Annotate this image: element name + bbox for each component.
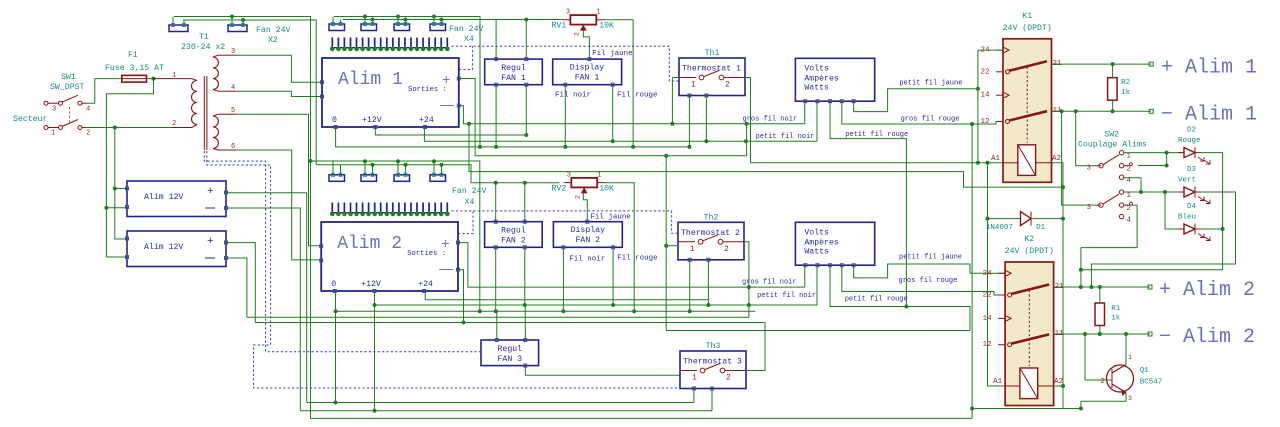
svg-text:FAN 2: FAN 2	[576, 236, 601, 245]
svg-text:D4: D4	[1187, 203, 1197, 211]
svg-text:2: 2	[86, 130, 90, 138]
svg-text:24V (DPDT): 24V (DPDT)	[1005, 246, 1054, 256]
svg-text:+ Alim 1: + Alim 1	[1161, 57, 1257, 80]
svg-text:A1: A1	[993, 378, 1003, 386]
svg-text:Volts: Volts	[804, 63, 829, 73]
svg-text:2: 2	[724, 245, 729, 254]
svg-text:2: 2	[1127, 205, 1132, 213]
svg-text:Thermostat 2: Thermostat 2	[681, 228, 740, 238]
svg-text:Sorties :: Sorties :	[408, 86, 447, 94]
svg-text:1k: 1k	[1111, 315, 1121, 323]
svg-text:RV2: RV2	[552, 184, 567, 193]
svg-text:3: 3	[1128, 395, 1132, 402]
svg-text:Couplage Alims: Couplage Alims	[1078, 140, 1147, 150]
svg-text:+: +	[207, 186, 214, 198]
svg-text:FAN 3: FAN 3	[498, 355, 523, 364]
svg-text:petit fil noir: petit fil noir	[757, 292, 816, 300]
svg-text:gros fil rouge: gros fil rouge	[899, 277, 958, 285]
svg-text:Fil rouge: Fil rouge	[617, 92, 658, 100]
svg-text:10K: 10K	[599, 184, 614, 193]
svg-text:Q1: Q1	[1140, 367, 1150, 375]
svg-text:Display: Display	[571, 225, 605, 235]
svg-text:Watts: Watts	[804, 247, 829, 256]
svg-text:T1: T1	[199, 33, 209, 42]
svg-text:K2: K2	[1024, 235, 1034, 244]
svg-text:2: 2	[1101, 378, 1106, 386]
svg-text:4: 4	[1127, 177, 1132, 185]
svg-text:gros fil noir: gros fil noir	[743, 116, 798, 124]
svg-text:petit fil noir: petit fil noir	[756, 133, 815, 141]
svg-text:230-24 x2: 230-24 x2	[181, 43, 225, 52]
svg-text:X4: X4	[465, 198, 475, 207]
svg-text:R1: R1	[1111, 305, 1121, 313]
svg-text:FAN 1: FAN 1	[575, 74, 600, 83]
svg-text:2: 2	[725, 81, 730, 90]
svg-text:1: 1	[172, 72, 176, 80]
svg-text:X4: X4	[464, 35, 474, 44]
svg-text:gros fil noir: gros fil noir	[742, 279, 797, 287]
svg-text:+12V: +12V	[361, 280, 381, 289]
svg-text:Th1: Th1	[705, 48, 720, 58]
svg-text:gros fil rouge: gros fil rouge	[901, 116, 960, 124]
svg-text:Th2: Th2	[704, 212, 719, 222]
svg-text:+: +	[441, 237, 449, 253]
svg-text:2: 2	[575, 195, 582, 199]
svg-text:+: +	[442, 73, 450, 89]
svg-text:Ampères: Ampères	[804, 73, 838, 83]
svg-text:petit fil jaune: petit fil jaune	[899, 80, 962, 88]
svg-text:petit fil rouge: petit fil rouge	[845, 296, 908, 304]
svg-text:4: 4	[86, 106, 90, 114]
svg-text:Thermostat 3: Thermostat 3	[683, 357, 742, 367]
svg-text:1N4007: 1N4007	[986, 224, 1013, 232]
svg-text:A2: A2	[1052, 155, 1061, 163]
svg-text:SW2: SW2	[1104, 131, 1119, 140]
svg-text:1: 1	[51, 130, 55, 138]
svg-text:Ampères: Ampères	[804, 237, 838, 247]
svg-text:1: 1	[692, 374, 697, 383]
svg-text:3: 3	[566, 9, 570, 17]
svg-text:2: 2	[172, 120, 176, 128]
svg-text:Th3: Th3	[706, 341, 721, 351]
svg-text:F1: F1	[128, 51, 138, 60]
svg-text:petit fil jaune: petit fil jaune	[899, 254, 962, 262]
svg-text:Fuse 3,15 AT: Fuse 3,15 AT	[105, 64, 164, 73]
svg-text:Fil noir: Fil noir	[569, 256, 605, 264]
svg-text:+24: +24	[418, 280, 433, 289]
svg-text:SW1: SW1	[61, 73, 76, 82]
svg-text:1: 1	[596, 9, 600, 17]
svg-text:1: 1	[691, 81, 696, 90]
svg-text:Fan 24V: Fan 24V	[452, 187, 486, 196]
svg-text:0: 0	[331, 280, 336, 289]
svg-text:1: 1	[1128, 354, 1132, 361]
svg-text:1: 1	[1127, 192, 1132, 200]
svg-text:Fan 24V: Fan 24V	[449, 25, 483, 34]
svg-text:Fil jaune: Fil jaune	[590, 214, 631, 222]
svg-text:Secteur: Secteur	[13, 115, 47, 124]
svg-text:10K: 10K	[599, 22, 614, 31]
svg-text:Alim 12V: Alim 12V	[144, 242, 183, 252]
svg-text:Fil jaune: Fil jaune	[592, 50, 633, 58]
svg-text:Fan 24V: Fan 24V	[256, 26, 290, 35]
svg-text:FAN 1: FAN 1	[501, 74, 526, 83]
svg-text:Display: Display	[570, 63, 604, 73]
svg-text:1: 1	[690, 245, 695, 254]
svg-text:Thermostat 1: Thermostat 1	[682, 64, 741, 74]
svg-text:Regul: Regul	[498, 344, 523, 354]
svg-text:D1: D1	[1036, 224, 1046, 232]
svg-text:+24: +24	[419, 116, 434, 125]
svg-text:RV1: RV1	[552, 22, 567, 31]
svg-text:Fil noir: Fil noir	[555, 92, 591, 100]
svg-text:3: 3	[52, 106, 56, 114]
svg-text:1: 1	[597, 171, 601, 179]
svg-text:Fil rouge: Fil rouge	[617, 255, 658, 263]
svg-text:Watts: Watts	[804, 83, 829, 92]
svg-text:− Alim 1: − Alim 1	[1161, 104, 1257, 127]
svg-text:Rouge: Rouge	[1178, 137, 1201, 145]
svg-text:BC547: BC547	[1140, 379, 1163, 387]
svg-text:12: 12	[980, 118, 989, 126]
svg-text:Alim 1: Alim 1	[338, 70, 403, 90]
svg-text:Bleu: Bleu	[1178, 214, 1196, 222]
svg-text:R2: R2	[1121, 79, 1130, 87]
svg-text:X2: X2	[268, 36, 278, 45]
svg-text:24V (DPDT): 24V (DPDT)	[1003, 23, 1052, 33]
svg-text:1: 1	[1127, 153, 1132, 161]
svg-text:0: 0	[332, 116, 337, 125]
svg-text:+: +	[207, 236, 214, 248]
svg-text:22: 22	[980, 68, 989, 76]
svg-text:1k: 1k	[1121, 89, 1131, 97]
svg-text:2: 2	[1127, 166, 1132, 174]
svg-text:Volts: Volts	[804, 227, 829, 237]
svg-text:petit fil rouge: petit fil rouge	[845, 131, 908, 139]
svg-text:D3: D3	[1187, 166, 1197, 174]
svg-text:Vert: Vert	[1178, 177, 1196, 185]
svg-text:D2: D2	[1187, 127, 1196, 135]
svg-text:Alim 2: Alim 2	[337, 234, 402, 254]
svg-text:4: 4	[1127, 217, 1132, 225]
svg-text:+12V: +12V	[362, 116, 382, 125]
svg-text:− Alim 2: − Alim 2	[1159, 326, 1255, 349]
svg-text:Alim 12V: Alim 12V	[144, 192, 183, 202]
svg-text:14: 14	[980, 92, 990, 100]
svg-text:+ Alim 2: + Alim 2	[1159, 279, 1255, 302]
svg-text:Regul: Regul	[501, 226, 526, 236]
svg-text:Regul: Regul	[501, 63, 526, 73]
svg-text:2: 2	[574, 32, 581, 36]
svg-text:3: 3	[567, 171, 571, 179]
svg-text:K1: K1	[1022, 12, 1032, 21]
svg-text:FAN 2: FAN 2	[501, 237, 526, 246]
svg-text:2: 2	[726, 374, 731, 383]
svg-text:SW_DPST: SW_DPST	[50, 83, 84, 92]
svg-text:A1: A1	[991, 155, 1001, 163]
